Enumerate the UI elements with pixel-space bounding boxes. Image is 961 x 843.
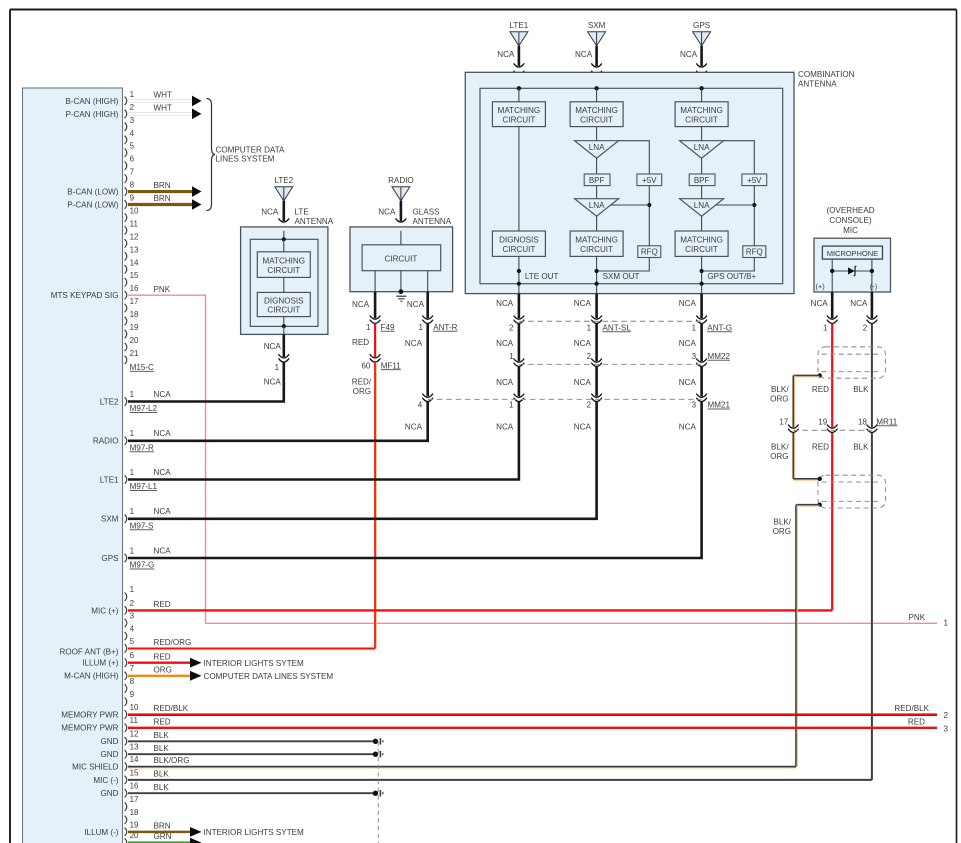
svg-text:LNA: LNA <box>589 201 605 210</box>
svg-text:BLK: BLK <box>154 783 170 792</box>
svg-text:2: 2 <box>587 352 592 361</box>
svg-text:GPS OUT/B+: GPS OUT/B+ <box>707 272 756 281</box>
svg-text:19: 19 <box>130 820 139 829</box>
svg-text:RED: RED <box>812 385 829 394</box>
svg-text:1: 1 <box>130 468 135 477</box>
svg-text:WHT: WHT <box>154 91 172 100</box>
svg-text:14: 14 <box>130 258 139 267</box>
svg-text:CIRCUIT: CIRCUIT <box>685 115 718 124</box>
svg-text:B-CAN (LOW): B-CAN (LOW) <box>67 187 119 196</box>
svg-text:CIRCUIT: CIRCUIT <box>580 245 613 254</box>
svg-text:MIC SHIELD: MIC SHIELD <box>72 763 118 772</box>
svg-text:LNA: LNA <box>694 201 710 210</box>
svg-text:GND: GND <box>101 737 119 746</box>
svg-text:CIRCUIT: CIRCUIT <box>267 306 300 315</box>
svg-text:BPF: BPF <box>694 176 710 185</box>
svg-text:ANTENNA: ANTENNA <box>798 80 837 89</box>
svg-text:3: 3 <box>944 725 949 734</box>
svg-text:MATCHING: MATCHING <box>680 106 723 115</box>
svg-text:GND: GND <box>101 750 119 759</box>
svg-text:MEMORY PWR: MEMORY PWR <box>61 724 118 733</box>
svg-text:RADIO: RADIO <box>388 176 414 185</box>
svg-text:MATCHING: MATCHING <box>575 106 618 115</box>
svg-text:6: 6 <box>130 651 135 660</box>
svg-text:MM21: MM21 <box>708 401 731 410</box>
svg-text:BRN: BRN <box>154 194 171 203</box>
svg-text:11: 11 <box>130 716 139 725</box>
svg-text:MR11: MR11 <box>876 417 897 426</box>
svg-text:NCA: NCA <box>575 50 593 59</box>
svg-text:ORG: ORG <box>353 387 371 396</box>
svg-text:15: 15 <box>130 271 139 280</box>
svg-text:RED: RED <box>154 600 171 609</box>
svg-text:B-CAN (HIGH): B-CAN (HIGH) <box>65 97 118 106</box>
svg-text:CONSOLE): CONSOLE) <box>829 216 872 225</box>
svg-text:1: 1 <box>130 390 135 399</box>
svg-text:CIRCUIT: CIRCUIT <box>502 245 535 254</box>
svg-text:MICROPHONE: MICROPHONE <box>827 249 878 258</box>
svg-text:RED/BLK: RED/BLK <box>154 704 189 713</box>
svg-text:16: 16 <box>130 284 139 293</box>
svg-text:BRN: BRN <box>154 181 171 190</box>
svg-text:NCA: NCA <box>496 339 514 348</box>
svg-text:ORG: ORG <box>770 452 788 461</box>
svg-text:NCA: NCA <box>497 50 515 59</box>
svg-text:ROOF ANT (B+): ROOF ANT (B+) <box>60 648 119 657</box>
svg-text:RADIO: RADIO <box>93 437 119 446</box>
svg-text:NCA: NCA <box>154 546 172 555</box>
svg-text:1: 1 <box>587 323 592 332</box>
svg-text:LTE OUT: LTE OUT <box>525 272 559 281</box>
svg-text:1: 1 <box>366 323 371 332</box>
svg-text:MTS KEYPAD SIG: MTS KEYPAD SIG <box>51 291 119 300</box>
svg-text:BLK/: BLK/ <box>773 517 791 526</box>
svg-text:NCA: NCA <box>154 468 172 477</box>
svg-text:MEMORY PWR: MEMORY PWR <box>61 710 118 719</box>
svg-text:RED: RED <box>908 717 925 726</box>
svg-text:PNK: PNK <box>909 613 926 622</box>
svg-text:NCA: NCA <box>680 50 698 59</box>
svg-text:(-): (-) <box>870 282 877 291</box>
svg-text:19: 19 <box>818 417 827 426</box>
svg-text:8: 8 <box>130 677 135 686</box>
svg-text:NCA: NCA <box>261 207 279 216</box>
svg-text:MIC: MIC <box>843 226 858 235</box>
svg-text:LTE: LTE <box>295 207 310 216</box>
svg-text:MF11: MF11 <box>381 361 402 370</box>
svg-text:M97-G: M97-G <box>130 561 155 570</box>
svg-text:M-CAN (HIGH): M-CAN (HIGH) <box>64 672 119 681</box>
svg-text:18: 18 <box>130 808 139 817</box>
svg-text:16: 16 <box>130 782 139 791</box>
svg-text:BLK: BLK <box>154 744 170 753</box>
svg-text:RED/ORG: RED/ORG <box>154 638 192 647</box>
svg-text:1: 1 <box>130 429 135 438</box>
svg-text:10: 10 <box>130 206 139 215</box>
svg-text:M97-L2: M97-L2 <box>130 404 158 413</box>
svg-text:RED: RED <box>154 652 171 661</box>
svg-text:2: 2 <box>130 599 135 608</box>
svg-text:RED: RED <box>154 717 171 726</box>
svg-text:BLK/: BLK/ <box>771 385 789 394</box>
svg-text:8: 8 <box>130 181 135 190</box>
svg-text:(OVERHEAD: (OVERHEAD <box>826 206 874 215</box>
svg-text:RED: RED <box>812 442 829 451</box>
svg-text:2: 2 <box>863 323 868 332</box>
svg-text:BLK: BLK <box>853 385 869 394</box>
svg-text:SXM: SXM <box>101 515 119 524</box>
svg-text:WHT: WHT <box>154 103 172 112</box>
svg-text:17: 17 <box>130 795 139 804</box>
svg-text:COMPUTER DATA LINES SYSTEM: COMPUTER DATA LINES SYSTEM <box>204 672 334 681</box>
svg-text:1: 1 <box>509 352 514 361</box>
svg-text:9: 9 <box>130 690 135 699</box>
svg-text:NCA: NCA <box>679 299 697 308</box>
svg-text:9: 9 <box>130 194 135 203</box>
svg-text:3: 3 <box>692 352 697 361</box>
svg-text:ANT-R: ANT-R <box>433 323 457 332</box>
svg-text:NCA: NCA <box>496 299 514 308</box>
svg-text:NCA: NCA <box>811 299 829 308</box>
svg-text:18: 18 <box>858 417 867 426</box>
svg-text:14: 14 <box>130 755 139 764</box>
svg-text:3: 3 <box>130 611 135 620</box>
svg-text:1: 1 <box>692 323 697 332</box>
svg-text:MIC (+): MIC (+) <box>91 606 119 615</box>
svg-text:2: 2 <box>130 103 135 112</box>
svg-text:NCA: NCA <box>574 299 592 308</box>
svg-text:GRN: GRN <box>154 832 172 841</box>
svg-text:NCA: NCA <box>154 390 172 399</box>
svg-text:LNA: LNA <box>589 143 605 152</box>
svg-text:ANTENNA: ANTENNA <box>295 217 334 226</box>
svg-text:COMBINATION: COMBINATION <box>798 70 855 79</box>
svg-text:21: 21 <box>130 349 139 358</box>
svg-text:DIGNOSIS: DIGNOSIS <box>499 236 539 245</box>
svg-text:20: 20 <box>130 336 139 345</box>
svg-text:13: 13 <box>130 743 139 752</box>
svg-text:F49: F49 <box>381 323 395 332</box>
svg-text:MM22: MM22 <box>708 352 731 361</box>
svg-text:17: 17 <box>130 297 139 306</box>
svg-text:17: 17 <box>779 417 788 426</box>
svg-text:1: 1 <box>275 363 280 372</box>
svg-text:+5V: +5V <box>747 176 762 185</box>
svg-text:BLK/: BLK/ <box>771 442 789 451</box>
svg-text:GPS: GPS <box>693 21 711 30</box>
svg-text:1: 1 <box>130 585 135 594</box>
svg-text:NCA: NCA <box>496 378 514 387</box>
svg-text:SXM: SXM <box>588 21 606 30</box>
svg-text:PNK: PNK <box>154 285 171 294</box>
svg-text:NCA: NCA <box>264 378 282 387</box>
svg-text:4: 4 <box>130 624 135 633</box>
svg-text:1: 1 <box>130 507 135 516</box>
svg-text:12: 12 <box>130 232 139 241</box>
svg-text:NCA: NCA <box>679 378 697 387</box>
svg-text:NCA: NCA <box>679 339 697 348</box>
svg-text:M97-R: M97-R <box>130 443 154 452</box>
svg-text:LTE1: LTE1 <box>510 21 529 30</box>
svg-text:+5V: +5V <box>642 176 657 185</box>
svg-text:ORG: ORG <box>154 665 172 674</box>
svg-text:1: 1 <box>944 619 949 628</box>
svg-text:5: 5 <box>130 142 135 151</box>
svg-text:LTE2: LTE2 <box>274 176 293 185</box>
svg-text:M97-S: M97-S <box>130 521 154 530</box>
svg-text:SXM OUT: SXM OUT <box>603 272 640 281</box>
svg-text:ANT-G: ANT-G <box>707 323 732 332</box>
svg-text:P-CAN (LOW): P-CAN (LOW) <box>67 200 119 209</box>
svg-text:RED: RED <box>352 338 369 347</box>
svg-text:1: 1 <box>130 546 135 555</box>
svg-text:CIRCUIT: CIRCUIT <box>580 115 613 124</box>
svg-text:NCA: NCA <box>679 423 697 432</box>
svg-text:INTERIOR LIGHTS SYTEM: INTERIOR LIGHTS SYTEM <box>204 828 305 837</box>
svg-text:NCA: NCA <box>154 507 172 516</box>
svg-text:M15-C: M15-C <box>130 363 154 372</box>
svg-text:BRN: BRN <box>154 822 171 831</box>
svg-text:P-CAN (HIGH): P-CAN (HIGH) <box>65 110 118 119</box>
svg-text:13: 13 <box>130 245 139 254</box>
svg-text:ILLUM (+): ILLUM (+) <box>82 659 119 668</box>
svg-text:15: 15 <box>130 768 139 777</box>
svg-text:LNA: LNA <box>694 143 710 152</box>
svg-text:1: 1 <box>419 323 424 332</box>
svg-text:5: 5 <box>130 637 135 646</box>
svg-text:INTERIOR LIGHTS SYTEM: INTERIOR LIGHTS SYTEM <box>204 659 305 668</box>
svg-text:MATCHING: MATCHING <box>575 236 618 245</box>
svg-text:MATCHING: MATCHING <box>680 236 723 245</box>
svg-text:1: 1 <box>509 401 514 410</box>
svg-text:DIGNOSIS: DIGNOSIS <box>264 296 304 305</box>
svg-text:12: 12 <box>130 730 139 739</box>
svg-text:NCA: NCA <box>352 300 370 309</box>
svg-text:3: 3 <box>130 116 135 125</box>
svg-text:RED/BLK: RED/BLK <box>894 704 929 713</box>
svg-text:COMPUTER DATA: COMPUTER DATA <box>216 146 286 155</box>
svg-text:2: 2 <box>509 323 514 332</box>
svg-text:RED/: RED/ <box>352 377 372 386</box>
svg-text:(+): (+) <box>816 282 825 291</box>
svg-text:ANT-SL: ANT-SL <box>603 323 632 332</box>
svg-text:ANTENNA: ANTENNA <box>413 217 452 226</box>
svg-text:ORG: ORG <box>773 527 791 536</box>
svg-text:CIRCUIT: CIRCUIT <box>502 115 535 124</box>
svg-text:LTE1: LTE1 <box>100 475 119 484</box>
svg-text:ILLUM (-): ILLUM (-) <box>84 828 118 837</box>
svg-text:NCA: NCA <box>574 378 592 387</box>
svg-text:LTE2: LTE2 <box>100 397 119 406</box>
svg-text:NCA: NCA <box>574 339 592 348</box>
svg-text:6: 6 <box>130 155 135 164</box>
svg-text:GPS: GPS <box>101 554 119 563</box>
svg-text:BPF: BPF <box>589 176 605 185</box>
svg-text:2: 2 <box>944 711 949 720</box>
svg-text:NCA: NCA <box>850 299 868 308</box>
svg-text:NCA: NCA <box>496 423 514 432</box>
svg-text:NCA: NCA <box>154 429 172 438</box>
svg-text:NCA: NCA <box>407 300 425 309</box>
svg-text:GND: GND <box>101 789 119 798</box>
svg-text:4: 4 <box>418 401 423 410</box>
svg-text:10: 10 <box>130 703 139 712</box>
svg-text:CIRCUIT: CIRCUIT <box>267 266 300 275</box>
svg-text:11: 11 <box>130 219 139 228</box>
svg-text:7: 7 <box>130 168 135 177</box>
svg-text:NCA: NCA <box>264 342 282 351</box>
svg-text:NCA: NCA <box>405 423 423 432</box>
svg-text:NCA: NCA <box>574 423 592 432</box>
svg-text:LINES SYSTEM: LINES SYSTEM <box>216 155 275 164</box>
svg-text:BLK: BLK <box>154 731 170 740</box>
svg-text:GLASS: GLASS <box>413 207 441 216</box>
svg-text:M97-L1: M97-L1 <box>130 482 158 491</box>
svg-text:3: 3 <box>692 401 697 410</box>
svg-text:RFQ: RFQ <box>641 248 658 257</box>
svg-text:19: 19 <box>130 323 139 332</box>
svg-text:CIRCUIT: CIRCUIT <box>384 254 417 263</box>
svg-text:4: 4 <box>130 129 135 138</box>
svg-text:MIC (-): MIC (-) <box>93 776 118 785</box>
svg-text:7: 7 <box>130 664 135 673</box>
svg-text:60: 60 <box>361 361 370 370</box>
svg-text:MATCHING: MATCHING <box>498 106 541 115</box>
svg-text:BLK: BLK <box>853 442 869 451</box>
svg-text:BLK: BLK <box>154 770 170 779</box>
svg-text:2: 2 <box>587 401 592 410</box>
svg-text:BLK/ORG: BLK/ORG <box>154 756 190 765</box>
svg-text:18: 18 <box>130 310 139 319</box>
svg-text:NCA: NCA <box>378 207 396 216</box>
svg-text:RFQ: RFQ <box>746 248 763 257</box>
svg-text:NCA: NCA <box>405 339 423 348</box>
svg-text:1: 1 <box>823 323 828 332</box>
svg-text:MATCHING: MATCHING <box>263 256 306 265</box>
svg-text:CIRCUIT: CIRCUIT <box>685 245 718 254</box>
svg-text:1: 1 <box>130 90 135 99</box>
svg-text:ORG: ORG <box>770 395 788 404</box>
